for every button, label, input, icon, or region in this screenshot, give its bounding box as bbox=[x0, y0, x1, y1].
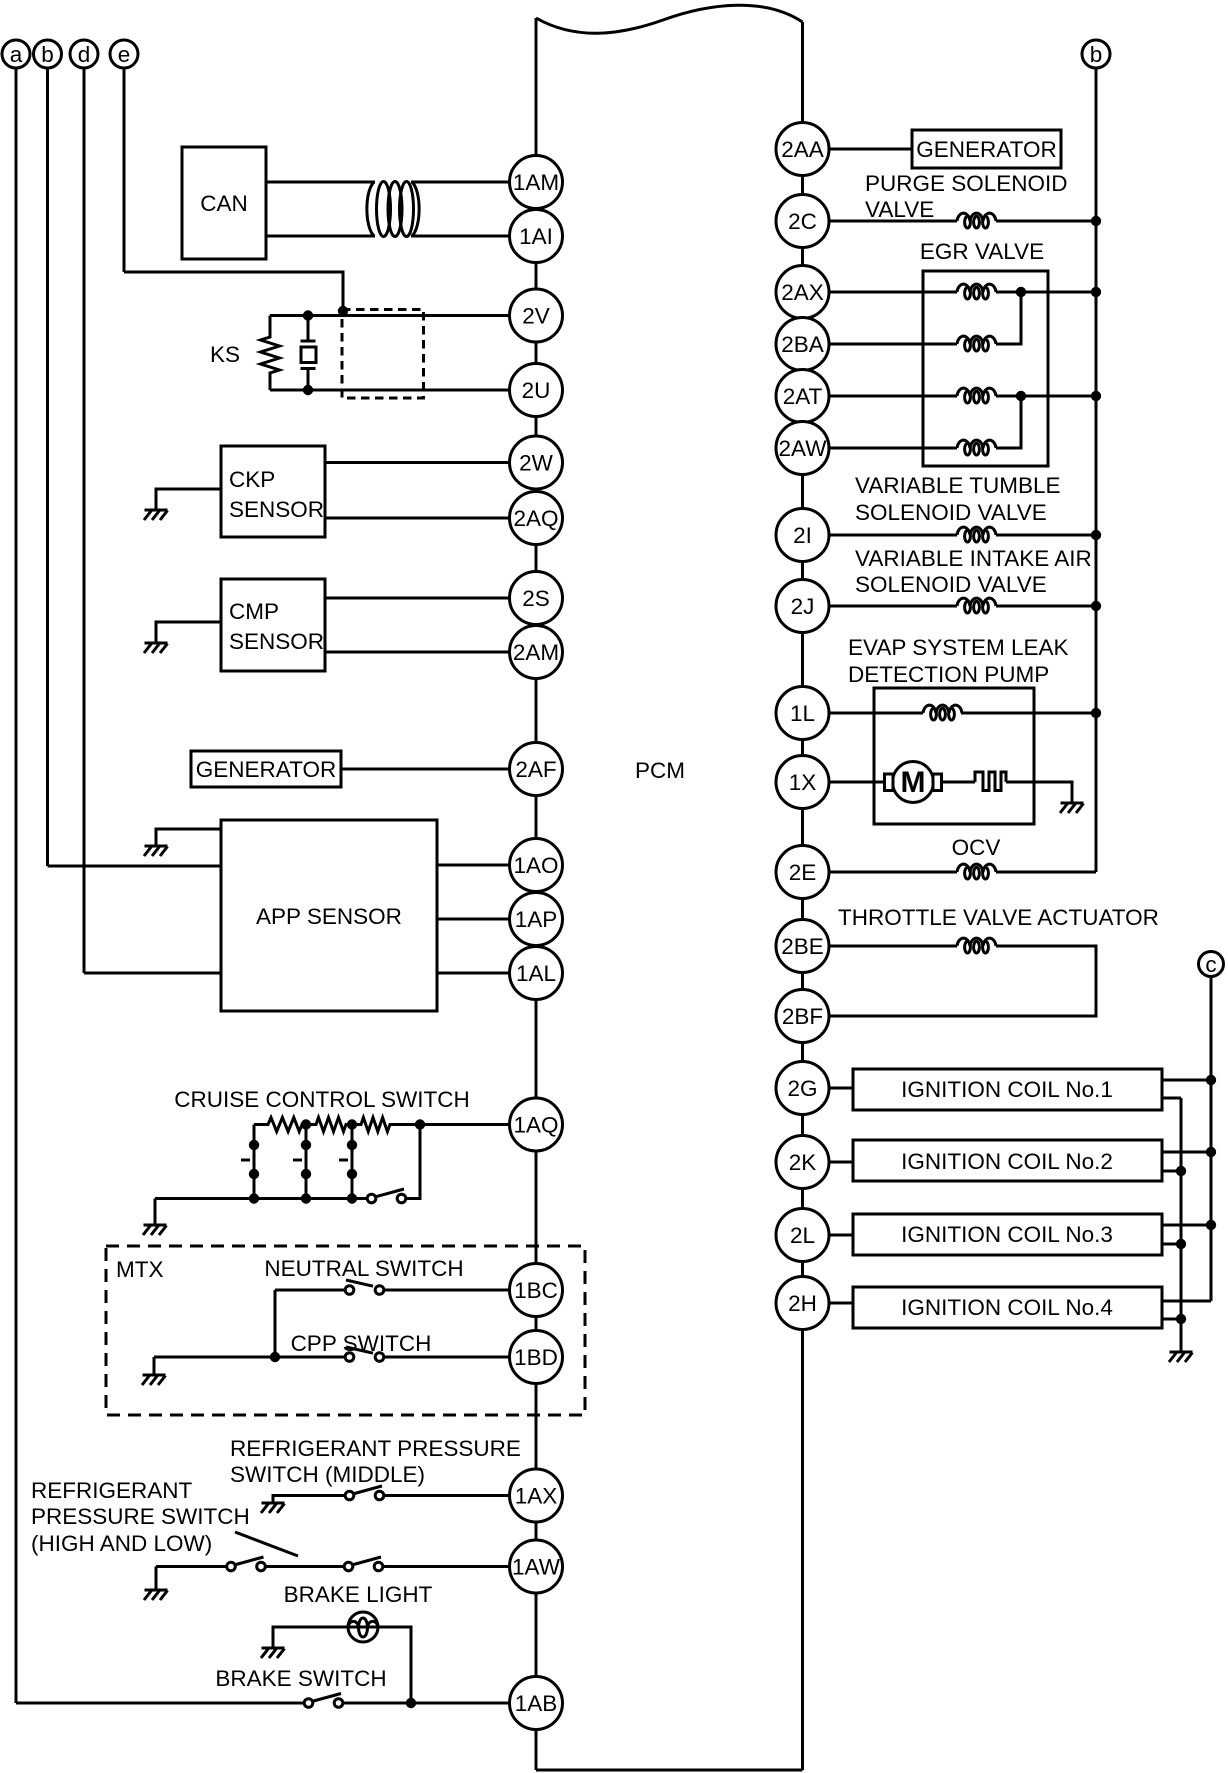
svg-text:2AM: 2AM bbox=[513, 640, 559, 665]
svg-text:SWITCH (MIDDLE): SWITCH (MIDDLE) bbox=[230, 1462, 425, 1487]
coil purge solenoid bbox=[957, 213, 996, 228]
node coil2-c bbox=[1206, 1147, 1216, 1157]
resistor chain cruise top rail to 1AQ bbox=[254, 1118, 536, 1132]
svg-text:2BF: 2BF bbox=[782, 1004, 823, 1029]
svg-text:PRESSURE SWITCH: PRESSURE SWITCH bbox=[31, 1504, 250, 1529]
svg-text:a: a bbox=[10, 42, 23, 67]
ground bus ignition bbox=[1180, 1098, 1183, 1352]
svg-text:2W: 2W bbox=[519, 451, 554, 476]
node bottom rail 3 bbox=[347, 1193, 357, 1203]
node EGR C to b-feed bbox=[1091, 391, 1101, 401]
connector circle b left bbox=[34, 40, 62, 866]
svg-text:REFRIGERANT: REFRIGERANT bbox=[31, 1478, 193, 1503]
node rail junction 1 bbox=[301, 1119, 311, 1129]
IGNITION COIL No.4 bbox=[803, 1302, 854, 1305]
connector circle e bbox=[110, 40, 138, 272]
cruise switch branch 1 bbox=[241, 1125, 259, 1199]
wire CMP to 2AM bbox=[325, 651, 536, 654]
wire KS bottom to 2U bbox=[270, 389, 536, 392]
wire APP to 1AL bbox=[437, 972, 536, 975]
brake switch contacts bbox=[304, 1694, 343, 1708]
svg-text:REFRIGERANT PRESSURE: REFRIGERANT PRESSURE bbox=[230, 1436, 521, 1461]
EGR valve box bbox=[923, 271, 1048, 466]
wire CMP to 2S bbox=[325, 597, 536, 600]
coil pump bbox=[923, 705, 962, 720]
ground cruise bbox=[143, 1225, 167, 1235]
svg-text:BRAKE SWITCH: BRAKE SWITCH bbox=[215, 1666, 386, 1691]
wire CKP ground lead bbox=[156, 489, 221, 510]
GENERATOR box left bbox=[191, 751, 341, 787]
svg-text:IGNITION COIL No.4: IGNITION COIL No.4 bbox=[901, 1295, 1113, 1320]
wire coil2 ground stub bbox=[1162, 1170, 1181, 1173]
ground high-low bbox=[144, 1590, 168, 1600]
terminal 2K bbox=[776, 1136, 829, 1189]
svg-text:IGNITION COIL No.3: IGNITION COIL No.3 bbox=[901, 1222, 1113, 1247]
terminal 2J bbox=[776, 580, 829, 633]
brake switch bbox=[339, 1702, 537, 1705]
terminal 1AL bbox=[510, 947, 563, 1000]
svg-text:CKP: CKP bbox=[229, 467, 275, 492]
svg-text:OCV: OCV bbox=[952, 835, 1001, 860]
node intake-b bbox=[1091, 601, 1101, 611]
svg-text:2BE: 2BE bbox=[781, 934, 824, 959]
wire CPP left bbox=[154, 1356, 350, 1359]
node bottom rail 1 bbox=[249, 1193, 259, 1203]
svg-text:1L: 1L bbox=[790, 701, 815, 726]
svg-text:GENERATOR: GENERATOR bbox=[916, 137, 1056, 162]
svg-text:1BC: 1BC bbox=[514, 1278, 558, 1303]
svg-text:1AI: 1AI bbox=[519, 224, 553, 249]
node pump-b bbox=[1091, 708, 1101, 718]
APP sensor box bbox=[221, 820, 437, 1011]
coil EGR A bbox=[957, 284, 996, 299]
wire APP ground lead bbox=[156, 829, 221, 846]
svg-text:b: b bbox=[41, 42, 54, 67]
node coil1-c bbox=[1206, 1075, 1216, 1085]
terminal 1AO bbox=[510, 839, 563, 892]
node coil3-gnd bbox=[1176, 1239, 1186, 1249]
wire coil3 ground stub bbox=[1162, 1243, 1181, 1246]
terminal 2V bbox=[510, 289, 563, 342]
svg-text:1AQ: 1AQ bbox=[513, 1113, 558, 1138]
node rail junction 2 bbox=[347, 1119, 357, 1129]
wire 2BA EGR coil B bbox=[803, 343, 958, 346]
wire 1L pump solenoid bbox=[803, 712, 924, 715]
cruise main switch bbox=[406, 1125, 420, 1199]
svg-text:IGNITION COIL No.1: IGNITION COIL No.1 bbox=[901, 1077, 1113, 1102]
CPP switch contacts bbox=[345, 1347, 384, 1361]
terminal 1AX bbox=[510, 1469, 563, 1522]
node KS top bbox=[303, 310, 313, 320]
svg-text:2AF: 2AF bbox=[515, 757, 556, 782]
wire 2AX EGR coil A bbox=[803, 291, 958, 294]
wire brake light left lead bbox=[273, 1627, 348, 1648]
terminal 2BA bbox=[776, 318, 829, 371]
terminal 1L bbox=[776, 687, 829, 740]
svg-text:2K: 2K bbox=[789, 1150, 817, 1175]
svg-text:MTX: MTX bbox=[116, 1257, 164, 1282]
svg-text:1AO: 1AO bbox=[513, 853, 558, 878]
refrigerant middle switch contacts bbox=[345, 1486, 384, 1500]
ground CMP bbox=[144, 643, 168, 653]
ground APP bbox=[144, 846, 168, 856]
cruise main switch contacts bbox=[367, 1189, 406, 1203]
CKP sensor box bbox=[221, 446, 325, 537]
coil EGR D bbox=[957, 440, 996, 455]
svg-text:2C: 2C bbox=[788, 209, 817, 234]
terminal 2S bbox=[510, 572, 563, 625]
node e-KS junction bbox=[338, 306, 348, 316]
ground MTX bbox=[142, 1375, 166, 1385]
twisted pair symbol bbox=[367, 182, 419, 237]
svg-text:c: c bbox=[1205, 952, 1216, 977]
terminal 2H bbox=[776, 1277, 829, 1330]
terminal 1AM bbox=[510, 156, 563, 209]
svg-text:2U: 2U bbox=[522, 378, 551, 403]
svg-text:KS: KS bbox=[210, 342, 240, 367]
wire MTX branch riser bbox=[274, 1290, 277, 1357]
svg-text:b: b bbox=[1090, 42, 1103, 67]
high-low switch 1 contacts bbox=[227, 1557, 266, 1571]
terminal 2G bbox=[776, 1062, 829, 1115]
terminal 1BC bbox=[510, 1264, 563, 1317]
node coil2-gnd bbox=[1176, 1166, 1186, 1176]
IGNITION COIL No.1 bbox=[803, 1087, 854, 1090]
terminal 1AP bbox=[510, 893, 563, 946]
terminal 2U bbox=[510, 364, 563, 417]
refrigerant middle switch bbox=[380, 1494, 537, 1497]
wire coil4 to c-line bbox=[1162, 1300, 1211, 1303]
svg-text:EGR VALVE: EGR VALVE bbox=[920, 239, 1044, 264]
node tumble-b bbox=[1091, 530, 1101, 540]
wire CMP ground lead bbox=[156, 622, 221, 643]
wire CAN high to 1AM bbox=[266, 181, 375, 184]
node brake junction bbox=[406, 1698, 416, 1708]
wire MTX ground lead bbox=[153, 1357, 156, 1375]
svg-text:IGNITION COIL No.2: IGNITION COIL No.2 bbox=[901, 1149, 1113, 1174]
svg-text:2AT: 2AT bbox=[783, 384, 823, 409]
GENERATOR box right bbox=[803, 148, 913, 151]
terminal 1AI bbox=[510, 210, 563, 263]
high-low switch 1 bbox=[261, 1565, 349, 1568]
wire to 1AW bbox=[379, 1565, 537, 1568]
svg-text:CPP SWITCH: CPP SWITCH bbox=[291, 1331, 432, 1356]
wire 2I tumble solenoid bbox=[803, 534, 958, 537]
svg-text:2L: 2L bbox=[790, 1223, 815, 1248]
connector circle d bbox=[70, 40, 98, 973]
terminal 2E bbox=[776, 846, 829, 899]
svg-text:1AW: 1AW bbox=[512, 1555, 561, 1580]
svg-text:2G: 2G bbox=[787, 1076, 817, 1101]
svg-text:2S: 2S bbox=[522, 586, 550, 611]
svg-text:e: e bbox=[118, 42, 131, 67]
terminal 1AB bbox=[510, 1677, 563, 1730]
svg-text:1AP: 1AP bbox=[515, 907, 558, 932]
MTX dashed box bbox=[106, 1246, 585, 1415]
IGNITION COIL No.2 bbox=[803, 1161, 854, 1164]
svg-text:d: d bbox=[78, 42, 91, 67]
svg-text:1AM: 1AM bbox=[513, 170, 559, 195]
wire coil2 to c-line bbox=[1162, 1151, 1211, 1154]
svg-text:GENERATOR: GENERATOR bbox=[196, 757, 336, 782]
wire coil1 to c-line bbox=[1162, 1079, 1211, 1082]
terminal 2AW bbox=[776, 422, 829, 475]
terminal 2AA bbox=[776, 123, 829, 176]
coil EGR B bbox=[957, 336, 996, 351]
dashed connector boundary KS bbox=[342, 310, 424, 399]
PCM outline box with torn wavy top bbox=[536, 5, 803, 1770]
node KS bottom bbox=[303, 385, 313, 395]
connector circle b right feed bbox=[1082, 40, 1110, 872]
connector circle a bbox=[2, 40, 30, 1703]
svg-text:BRAKE LIGHT: BRAKE LIGHT bbox=[284, 1582, 433, 1607]
svg-text:VARIABLE INTAKE AIR: VARIABLE INTAKE AIR bbox=[855, 546, 1092, 571]
node MTX junction bbox=[270, 1352, 280, 1362]
terminal 1AW bbox=[510, 1540, 563, 1593]
wire 1X to motor bbox=[803, 781, 885, 784]
wire coil4 ground stub bbox=[1162, 1318, 1181, 1321]
terminal 2BF bbox=[776, 990, 829, 1043]
svg-text:1AX: 1AX bbox=[515, 1484, 558, 1509]
svg-text:2J: 2J bbox=[791, 594, 815, 619]
terminal 2AF bbox=[510, 743, 563, 796]
wire a-line to brake switch bbox=[16, 1702, 309, 1705]
terminal 2C bbox=[776, 195, 829, 248]
terminal 2AT bbox=[776, 370, 829, 423]
neutral switch contacts bbox=[345, 1280, 384, 1294]
cruise bottom rail bbox=[155, 1197, 372, 1200]
svg-text:M: M bbox=[901, 766, 926, 799]
svg-text:PURGE SOLENOID: PURGE SOLENOID bbox=[865, 171, 1068, 196]
wire APP to 1AP bbox=[437, 918, 536, 921]
terminal 2AQ bbox=[510, 492, 563, 545]
wire high-low ground lead bbox=[155, 1567, 158, 1591]
terminal 1BD bbox=[510, 1331, 563, 1384]
neutral switch bbox=[380, 1289, 537, 1292]
wire CAN low to 1AI bbox=[266, 235, 375, 238]
wire refrigerant middle ground stub bbox=[273, 1496, 350, 1504]
svg-text:2AX: 2AX bbox=[781, 280, 824, 305]
node EGR A to b-feed bbox=[1091, 287, 1101, 297]
terminal 2L bbox=[776, 1209, 829, 1262]
svg-text:CAN: CAN bbox=[200, 191, 248, 216]
terminal 1AQ bbox=[510, 1098, 563, 1151]
wire throttle loop to 2BF bbox=[803, 946, 1097, 1016]
svg-text:CRUISE CONTROL SWITCH: CRUISE CONTROL SWITCH bbox=[174, 1087, 469, 1112]
CAN module box bbox=[182, 147, 266, 259]
cruise switch branch 3 bbox=[339, 1125, 357, 1199]
motor M pump bbox=[885, 762, 942, 803]
ground refrigerant middle bbox=[261, 1503, 285, 1513]
svg-text:VARIABLE TUMBLE: VARIABLE TUMBLE bbox=[855, 473, 1061, 498]
svg-text:1X: 1X bbox=[789, 770, 817, 795]
EVAP pump box bbox=[874, 688, 1034, 824]
ground CKP bbox=[144, 510, 168, 520]
svg-text:VALVE: VALVE bbox=[865, 197, 934, 222]
piezo element KS bbox=[301, 316, 317, 391]
wire 2E OCV bbox=[803, 871, 958, 874]
svg-text:NEUTRAL SWITCH: NEUTRAL SWITCH bbox=[264, 1256, 463, 1281]
svg-text:2BA: 2BA bbox=[781, 332, 824, 357]
svg-text:DETECTION PUMP: DETECTION PUMP bbox=[848, 662, 1049, 687]
svg-text:EVAP SYSTEM LEAK: EVAP SYSTEM LEAK bbox=[848, 635, 1069, 660]
svg-text:CMP: CMP bbox=[229, 599, 279, 624]
CPP switch bbox=[380, 1356, 537, 1359]
wire CKP to 2AQ bbox=[325, 517, 536, 520]
wire CKP to 2W bbox=[325, 461, 536, 464]
high-low switch 2 contacts bbox=[344, 1557, 383, 1571]
wire motor to vibrator bbox=[942, 781, 976, 784]
node EGR A junction bbox=[1016, 287, 1026, 297]
svg-text:2AA: 2AA bbox=[781, 137, 824, 162]
coil intake bbox=[957, 598, 996, 613]
wire vibrator to ground bbox=[1006, 782, 1072, 803]
svg-text:SENSOR: SENSOR bbox=[229, 629, 324, 654]
lamp brake light bbox=[348, 1612, 378, 1642]
CMP sensor box bbox=[221, 579, 325, 671]
IGNITION COIL No.3 bbox=[803, 1234, 854, 1237]
coil throttle bbox=[957, 938, 996, 953]
wire 2C purge solenoid bbox=[803, 220, 958, 223]
wire d to APP sensor bbox=[84, 972, 221, 975]
terminal 2AX bbox=[776, 266, 829, 319]
svg-text:1AB: 1AB bbox=[515, 1691, 558, 1716]
wire brake light right lead bbox=[378, 1627, 411, 1703]
coil OCV bbox=[957, 864, 996, 879]
svg-text:2E: 2E bbox=[789, 860, 817, 885]
svg-text:(HIGH AND LOW): (HIGH AND LOW) bbox=[31, 1531, 212, 1556]
wire e to KS junction bbox=[124, 272, 343, 316]
vibrator reference element bbox=[975, 772, 1006, 791]
terminal 2BE bbox=[776, 920, 829, 973]
svg-text:SOLENOID VALVE: SOLENOID VALVE bbox=[855, 500, 1047, 525]
wire high-low left bbox=[156, 1565, 231, 1568]
ground ignition coils bbox=[1169, 1352, 1193, 1362]
connector circle c bbox=[1199, 952, 1224, 1302]
wire 2BE throttle actuator bbox=[803, 945, 958, 948]
coil tumble bbox=[957, 527, 996, 542]
ground brake light bbox=[261, 1648, 285, 1658]
wire b to APP sensor bbox=[48, 865, 222, 868]
svg-text:PCM: PCM bbox=[635, 758, 685, 783]
svg-text:2AW: 2AW bbox=[779, 436, 828, 461]
node coil3-c bbox=[1206, 1220, 1216, 1230]
node purge-b bbox=[1091, 216, 1101, 226]
svg-text:2I: 2I bbox=[793, 523, 812, 548]
node bottom rail 2 bbox=[301, 1193, 311, 1203]
ground EVAP bbox=[1060, 803, 1084, 813]
resistor KS bbox=[261, 316, 280, 391]
wire 2AT EGR coil C bbox=[803, 395, 958, 398]
terminal 2I bbox=[776, 509, 829, 562]
wire 2J intake solenoid bbox=[803, 605, 958, 608]
svg-text:2V: 2V bbox=[522, 304, 550, 329]
svg-text:THROTTLE VALVE ACTUATOR: THROTTLE VALVE ACTUATOR bbox=[838, 905, 1159, 930]
wire generator to 2AF bbox=[341, 768, 536, 771]
svg-text:2H: 2H bbox=[788, 1291, 817, 1316]
wire cruise ground lead bbox=[154, 1199, 157, 1226]
svg-text:SENSOR: SENSOR bbox=[229, 497, 324, 522]
svg-text:2AQ: 2AQ bbox=[513, 506, 558, 531]
terminal 2W bbox=[510, 436, 563, 489]
node coil4-gnd bbox=[1176, 1314, 1186, 1324]
node rail junction 3 bbox=[415, 1119, 425, 1129]
svg-text:1BD: 1BD bbox=[514, 1345, 558, 1370]
coil EGR C bbox=[957, 388, 996, 403]
svg-text:APP SENSOR: APP SENSOR bbox=[256, 904, 402, 929]
svg-text:1AL: 1AL bbox=[516, 961, 556, 986]
terminal 1X bbox=[776, 756, 829, 809]
pointer line bbox=[235, 1532, 298, 1556]
svg-text:SOLENOID VALVE: SOLENOID VALVE bbox=[855, 572, 1047, 597]
wire KS top to 2V bbox=[270, 314, 536, 317]
wire coil3 to c-line bbox=[1162, 1224, 1211, 1227]
cruise switch branch 2 bbox=[293, 1125, 311, 1199]
wire APP to 1AO bbox=[437, 864, 536, 867]
wire 2AW EGR coil D bbox=[803, 447, 958, 450]
terminal 2AM bbox=[510, 626, 563, 679]
node EGR C junction bbox=[1016, 391, 1026, 401]
wire coil1 ground stub bbox=[1162, 1097, 1181, 1100]
wire neutral switch left bbox=[275, 1289, 350, 1292]
